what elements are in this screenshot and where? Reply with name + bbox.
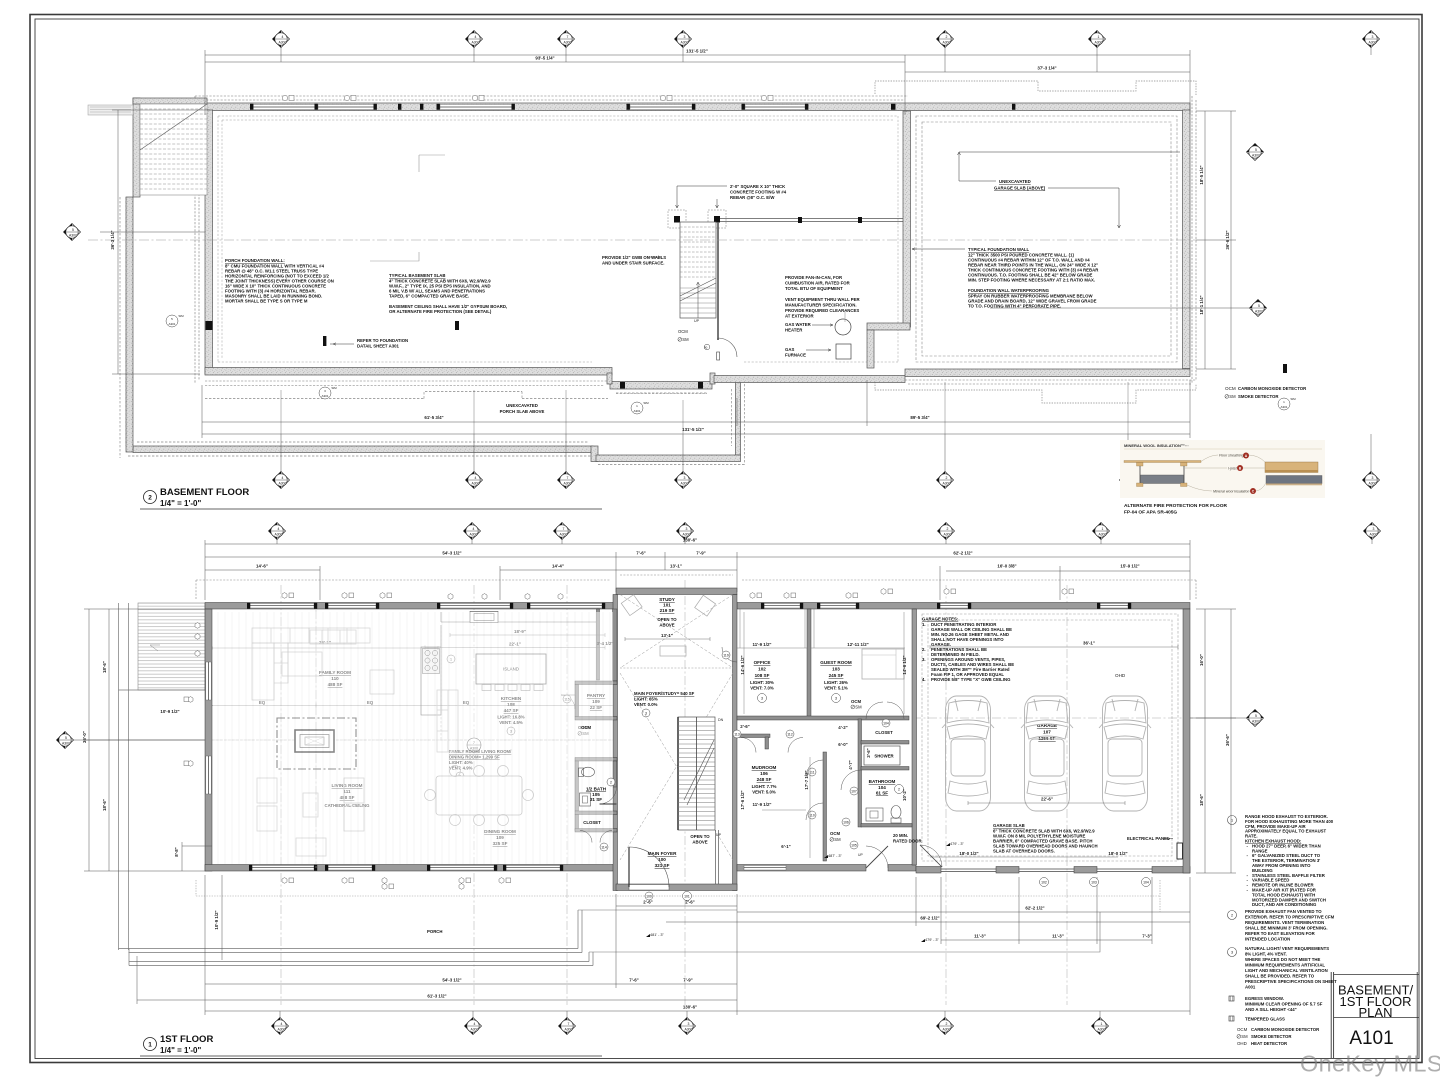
svg-text:5: 5 [72,228,74,232]
svg-text:GARAGE SLAB: GARAGE SLAB [993,823,1025,828]
family room/living room area note [449,749,512,780]
svg-text:UNEXCAVATED: UNEXCAVATED [999,179,1031,184]
svg-text:VENT: 5.1%: VENT: 5.1% [824,686,848,691]
svg-text:8'-8": 8'-8" [174,847,179,856]
svg-text:2'-6": 2'-6" [740,724,749,729]
top wall [205,103,1190,111]
1st floor side diamonds [57,710,1264,749]
svg-text:OCM: OCM [830,831,840,836]
svg-text:20 MIN.: 20 MIN. [893,833,908,838]
svg-text:131'-5 1/2": 131'-5 1/2" [682,427,704,432]
svg-text:A300: A300 [1098,1028,1106,1032]
svg-text:6'-0": 6'-0" [838,742,847,747]
living room furniture [257,670,458,856]
svg-text:A300: A300 [681,482,689,486]
svg-text:1.: 1. [922,622,926,627]
svg-text:22'-6": 22'-6" [1041,797,1053,802]
svg-text:MAIN FOYER: MAIN FOYER [648,851,678,856]
legend symbols [1229,996,1323,1046]
svg-text:I-joist: I-joist [1228,467,1238,471]
slab corner marks [370,155,845,322]
interior wall between house and garage foundation [903,111,911,327]
garage slab dashed inset [922,614,1178,861]
1st floor grid diamonds top [269,523,1381,545]
bottom wall right [714,376,905,383]
svg-text:4'-2": 4'-2" [838,725,847,730]
car 2 [1021,696,1073,811]
svg-text:OPEN TO: OPEN TO [690,834,710,839]
svg-text:PORCH FOUNDATION WALL:: PORCH FOUNDATION WALL: [225,258,285,263]
svg-text:17'-6 1/2": 17'-6 1/2" [740,790,745,809]
svg-text:108 SF: 108 SF [755,673,770,678]
porch foundation top-left: walls [126,98,207,452]
svg-text:18'-5 1/4": 18'-5 1/4" [1199,165,1204,184]
unexcavated garage slab label with arrows [958,152,1181,228]
svg-text:A301: A301 [168,322,175,326]
right wall [1183,609,1190,873]
svg-text:A300: A300 [275,533,283,537]
svg-text:OCM: OCM [1225,386,1236,391]
basement text: typical basement slab [389,273,507,314]
svg-text:A300: A300 [279,482,287,486]
svg-text:3: 3 [761,697,763,701]
svg-text:PRESCRIPTIVE SPECIFICATIONS ON: PRESCRIPTIVE SPECIFICATIONS ON SHEET [1245,979,1337,984]
kitchen dimension lines [425,633,605,650]
svg-text:3.: 3. [922,657,926,662]
pantry walls [575,681,617,685]
svg-text:4'-7": 4'-7" [848,760,853,769]
porch east wall [736,376,741,455]
porch south wall upper [133,446,593,453]
half bath walls [575,758,617,762]
svg-text:BASEMENT FLOOR: BASEMENT FLOOR [160,487,249,498]
foyer side walls [613,595,618,891]
left wall tags [184,623,200,767]
svg-text:LIGHT: 65%: LIGHT: 65% [634,697,658,702]
interior beam double line with columns [620,210,903,389]
dashed area separators [212,625,613,740]
door arc at stair bottom [718,338,737,357]
window tags top [282,589,1074,600]
main stair [678,717,724,884]
basement right dimensions [1196,111,1236,369]
svg-text:16'-0 3/8": 16'-0 3/8" [997,564,1016,569]
svg-text:REFER TO EAST ELEVATION FOR: REFER TO EAST ELEVATION FOR [1245,931,1316,936]
svg-text:36'-0": 36'-0" [82,731,87,743]
hall door arcs on corridor wall [806,760,823,777]
office door arc [722,647,737,662]
svg-text:2.: 2. [922,647,926,652]
car 3 [1099,696,1151,811]
svg-text:TYPICAL BASEMENT SLAB: TYPICAL BASEMENT SLAB [389,273,446,278]
svg-text:A300: A300 [1369,482,1377,486]
svg-text:3: 3 [684,35,686,39]
svg-text:A300: A300 [564,41,572,45]
svg-text:A300: A300 [279,41,287,45]
interior dims [737,609,905,648]
svg-text:2: 2 [610,781,612,785]
svg-text:A300: A300 [685,1028,693,1032]
svg-text:36'-6": 36'-6" [1225,734,1230,746]
svg-text:7'-3": 7'-3" [1142,934,1151,939]
svg-text:DN: DN [718,718,724,722]
svg-text:18'-6": 18'-6" [1199,794,1204,806]
island with stools [476,654,546,691]
svg-text:119: 119 [723,654,729,658]
garage notes [922,617,1014,683]
basement grid diamonds bottom [273,434,1380,489]
svg-text:SM: SM [1241,1034,1248,1039]
kitchen counters [421,612,596,716]
kitchen labels [497,696,524,735]
svg-text:SLAB AT OVERHEAD DOORS.: SLAB AT OVERHEAD DOORS. [993,849,1055,854]
svg-text:54'-3 1/2": 54'-3 1/2" [442,551,461,556]
foyer bottom wall [616,884,737,891]
layered assembly right [1265,462,1322,485]
svg-text:A300: A300 [1095,41,1103,45]
section circle 7/A300 [467,738,481,752]
svg-text:VENT: 7.0%: VENT: 7.0% [750,686,774,691]
svg-text:11'-9 1/2": 11'-9 1/2" [753,642,772,647]
right dims [1196,609,1236,873]
windows in top wall (white gaps with glass line) [247,603,1131,609]
svg-text:CLOSET: CLOSET [583,820,601,825]
svg-text:4: 4 [282,476,284,480]
svg-text:18'-0 1/2": 18'-0 1/2" [959,851,978,856]
svg-text:16'-0": 16'-0" [1199,654,1204,666]
window tags above wall [282,95,773,100]
svg-text:7'-6": 7'-6" [636,551,645,556]
svg-text:FURNACE: FURNACE [785,353,806,358]
svg-text:A300: A300 [564,482,572,486]
gas water heater [785,319,851,335]
office/guest bottom wall [737,716,909,720]
svg-text:5: 5 [65,736,67,740]
svg-text:219 SF: 219 SF [660,608,675,613]
half bath fixtures [579,767,617,806]
svg-text:PLAN: PLAN [1359,1005,1393,1020]
svg-text:OCM: OCM [678,329,688,334]
1st floor grid diamonds bottom [272,1011,1109,1035]
svg-text:7: 7 [567,35,569,39]
svg-text:A300: A300 [943,482,951,486]
unexcavated porch slab above [500,403,545,414]
svg-text:Mineral wool insulation: Mineral wool insulation [1213,490,1249,494]
mudroom labels [752,765,777,795]
svg-text:OR ALTERNATE FIRE PROTECTION (: OR ALTERNATE FIRE PROTECTION (SEE DETAIL… [389,309,492,314]
footing dashed offsets around basement [195,96,1196,394]
svg-text:A300: A300 [1252,720,1260,724]
svg-text:BATHROOM: BATHROOM [869,779,896,784]
svg-text:SM: SM [855,705,862,710]
foyer labels [634,691,695,717]
svg-text:A300: A300 [1252,154,1260,158]
svg-text:TAPED, 6" COMPACTED GRAVE BASE: TAPED, 6" COMPACTED GRAVE BASE. [389,294,469,299]
study chairs [621,595,715,656]
svg-text:FP-04 OF APA SR-405G: FP-04 OF APA SR-405G [1124,510,1177,516]
right wall [1183,110,1191,369]
svg-text:1/2 BATH: 1/2 BATH [586,787,607,792]
svg-text:7'-9": 7'-9" [683,978,692,983]
family room labels [319,670,370,808]
svg-text:11'-3": 11'-3" [1052,934,1064,939]
svg-text:CONCRETE FOOTING W #4: CONCRETE FOOTING W #4 [730,190,787,195]
closet under bath double doors [580,831,612,843]
svg-text:A300: A300 [943,1028,951,1032]
basement top wall windows and jambs [250,95,1015,109]
left wall [205,110,213,374]
svg-text:ABOVE: ABOVE [692,840,707,845]
svg-text:LIGHT: 7.7%: LIGHT: 7.7% [752,784,777,789]
svg-text:OneKey MLS: OneKey MLS [1300,1051,1440,1077]
svg-text:7'-6": 7'-6" [629,978,638,983]
svg-text:111: 111 [809,771,814,775]
stepped porch-door wall [610,382,712,390]
car 1 [942,696,994,811]
basement dimension lines top [205,50,1190,115]
svg-text:103: 103 [1091,881,1097,885]
svg-text:PROVIDE EXHAUST FAN VENTED TO: PROVIDE EXHAUST FAN VENTED TO [1245,909,1322,914]
svg-text:1ST FLOOR: 1ST FLOOR [160,1034,213,1045]
svg-text:A001: A001 [1245,985,1256,990]
svg-text:3: 3 [835,697,837,701]
svg-text:FOUNDATION WALL WATERPROOFING: FOUNDATION WALL WATERPROOFING [968,288,1050,293]
svg-text:14'-6 1/2": 14'-6 1/2" [902,655,907,674]
basement grid diamonds top [273,31,1380,73]
svg-text:3: 3 [686,527,688,531]
garage centerline dash-dot [912,717,1196,719]
svg-text:NATURAL LIGHT/ VENT REQUIREMEN: NATURAL LIGHT/ VENT REQUIREMENTS [1245,946,1329,951]
centerlines dash-dot [88,239,1196,241]
svg-text:62'-2 1/2": 62'-2 1/2" [1025,906,1044,911]
interior footing dashed offsets [218,116,898,362]
svg-text:RATED DOOR: RATED DOOR [893,839,922,844]
svg-text:18'-6": 18'-6" [102,661,107,673]
svg-text:SIM: SIM [331,386,337,390]
svg-text:REFER TO FOUNDATION: REFER TO FOUNDATION [357,338,408,343]
top wall right [737,603,1190,610]
svg-text:REBAR @8" O.C. E/W: REBAR @8" O.C. E/W [730,195,775,200]
svg-text:SHALL BE MINIMUM 3' FROM OPEN: SHALL BE MINIMUM 3' FROM OPENING. [1245,926,1328,931]
svg-text:UP: UP [858,853,863,857]
svg-text:2'-0" SQUARE X 10" THICK: 2'-0" SQUARE X 10" THICK [730,184,786,189]
svg-text:62'-2 1/2": 62'-2 1/2" [953,551,972,556]
guest bed [862,649,904,679]
svg-text:131'-5 1/2": 131'-5 1/2" [686,49,708,54]
range burners [423,649,440,674]
svg-text:OCM: OCM [581,725,591,730]
svg-text:5: 5 [1255,148,1257,152]
svg-text:REQUIREMENTS. VENT TERMINATION: REQUIREMENTS. VENT TERMINATION [1245,920,1324,925]
left wall [205,609,212,871]
svg-text:A300: A300 [1369,41,1377,45]
basement text: porch foundation wall note [225,258,334,304]
svg-text:OCM: OCM [851,699,861,704]
svg-text:321 SF: 321 SF [655,863,670,868]
porch footprint dashed outline bottom-left [120,197,745,465]
svg-text:2'-6": 2'-6" [643,900,652,905]
svg-text:SHOWER: SHOWER [874,754,894,759]
concrete footing note (stairs) [676,184,787,208]
svg-text:103: 103 [832,667,840,672]
svg-text:LIGHT: 30%: LIGHT: 30% [750,680,774,685]
svg-text:106: 106 [760,771,768,776]
refer to foundation note [323,336,408,349]
svg-text:SMOKE DETECTOR: SMOKE DETECTOR [1238,394,1279,399]
provide gwb note [602,255,666,266]
svg-text:1: 1 [1231,819,1233,823]
family room furniture: sectional [252,628,370,700]
svg-text:AT EXTERIOR: AT EXTERIOR [785,314,814,319]
OCM SM symbols near stair [678,329,710,350]
svg-text:A300: A300 [560,533,568,537]
svg-text:A300: A300 [1370,533,1378,537]
svg-text:113: 113 [734,733,740,737]
svg-text:130'-6": 130'-6" [683,1005,697,1010]
section cut circles [166,315,1290,414]
svg-text:SM: SM [834,837,841,842]
svg-text:INTENDED LOCATION: INTENDED LOCATION [1245,937,1290,942]
svg-text:2: 2 [946,476,948,480]
svg-text:A300: A300 [565,1028,573,1032]
elevation flags [646,842,965,937]
svg-text:ALTERNATE FIRE PROTECTION FOR: ALTERNATE FIRE PROTECTION FOR FLOOR [1124,503,1227,509]
svg-text:OHD: OHD [1237,1041,1247,1046]
svg-text:4: 4 [475,476,477,480]
svg-text:4: 4 [282,35,284,39]
grid dash-dot verticals [281,580,1067,1005]
svg-text:102: 102 [1041,881,1047,885]
basement title [140,487,602,509]
svg-text:2: 2 [148,495,152,502]
svg-text:479' - 3": 479' - 3" [950,842,965,846]
svg-text:UNEXCAVATED: UNEXCAVATED [506,403,538,408]
svg-text:7'-9": 7'-9" [696,551,705,556]
svg-text:1: 1 [1098,35,1100,39]
svg-text:CUMBUSTION AIR, RATED FOR: CUMBUSTION AIR, RATED FOR [785,281,851,286]
svg-text:107: 107 [1043,730,1051,735]
svg-text:GARAGE NOTES:: GARAGE NOTES: [922,617,959,622]
svg-text:MINIMUM REQUIREMENTS ARTIFICIA: MINIMUM REQUIREMENTS ARTIFICIAL [1245,963,1325,968]
svg-text:479' - 3": 479' - 3" [925,938,940,942]
svg-text:SIM: SIM [643,401,649,405]
svg-text:A300: A300 [683,533,691,537]
svg-text:102: 102 [758,667,766,672]
svg-text:4: 4 [281,1022,283,1026]
svg-text:101: 101 [663,603,671,608]
svg-text:2: 2 [946,35,948,39]
svg-text:14'-6": 14'-6" [256,564,268,569]
garage foundation slab dashed inset [916,116,1177,362]
kitchen/foyer wall [613,609,618,681]
windows in bottom wall [208,662,786,871]
svg-text:MUDROOM: MUDROOM [752,765,777,770]
svg-text:WHERE SPACES DO NOT MEET THE: WHERE SPACES DO NOT MEET THE [1245,957,1320,962]
svg-text:3: 3 [1231,951,1233,955]
svg-text:18'-0 1/2": 18'-0 1/2" [1108,851,1127,856]
svg-text:104: 104 [1143,881,1149,885]
svg-text:CARBON MONOXIDE DETECTOR: CARBON MONOXIDE DETECTOR [1251,1027,1320,1032]
svg-text:OFFICE: OFFICE [754,660,771,665]
locker door arcs [741,738,756,753]
svg-text:36'-1": 36'-1" [1083,641,1095,646]
svg-text:36'-3 1/4": 36'-3 1/4" [110,230,115,249]
svg-text:ABOVE: ABOVE [659,623,674,628]
basement exterior walls (concrete) [133,103,1190,462]
svg-text:MANUFACTURER SPECIFICATION.: MANUFACTURER SPECIFICATION. [785,303,857,308]
svg-text:A300: A300 [278,1028,286,1032]
top rows [205,540,1190,600]
svg-text:2: 2 [946,1022,948,1026]
svg-text:61 SF: 61 SF [876,791,888,796]
porch slab edges bottom [119,910,1101,966]
svg-text:A301: A301 [1280,405,1287,409]
svg-text:PORCH SLAB ABOVE: PORCH SLAB ABOVE [500,409,545,414]
svg-text:15'-9 1/2": 15'-9 1/2" [1120,564,1139,569]
svg-text:37'-3 1/4": 37'-3 1/4" [1037,66,1056,71]
window tags bottom [282,878,511,890]
svg-text:A300: A300 [62,742,70,746]
svg-text:31 SF: 31 SF [590,797,602,802]
gas furnace [785,344,851,359]
svg-text:GAS WATER: GAS WATER [785,322,812,327]
svg-text:MAIN FOYER/STUDY= 540 SF: MAIN FOYER/STUDY= 540 SF [634,691,695,696]
svg-text:481' - 3": 481' - 3" [650,933,665,937]
garage door panels in gaps [941,869,1152,872]
svg-text:A300: A300 [943,41,951,45]
bottom wall left [205,368,612,376]
svg-text:OCM: OCM [1237,1027,1248,1032]
svg-text:SM: SM [1229,394,1236,399]
bathroom [869,779,896,796]
bottom wall main [205,865,616,872]
svg-text:3: 3 [688,1022,690,1026]
svg-text:6'-1": 6'-1" [781,844,790,849]
svg-text:VENT EQUIPMENT THRU WALL PER: VENT EQUIPMENT THRU WALL PER [785,297,861,302]
svg-text:100: 100 [646,895,652,899]
garage-slab-above dotted outline (top, stepped) [875,81,1196,403]
floor boards hint [213,612,613,864]
svg-text:CLOSET: CLOSET [875,730,893,735]
mudroom lockers wall [737,734,770,738]
svg-text:TOTAL BTU OF EQUIPMENT: TOTAL BTU OF EQUIPMENT [785,286,843,291]
study X dashed [620,595,733,861]
I-joist section left [1124,461,1201,487]
left deck stairs [119,603,206,950]
shower [864,746,900,765]
svg-text:LIGHT AND MECHANICAL VENTILATI: LIGHT AND MECHANICAL VENTILATION [1245,968,1328,973]
svg-text:DATAIL SHEET A301: DATAIL SHEET A301 [357,344,399,349]
top wall left [205,603,616,610]
svg-text:5: 5 [1258,304,1260,308]
front door [629,847,669,900]
svg-text:Floor sheathing: Floor sheathing [1219,454,1244,458]
svg-text:112: 112 [787,733,793,737]
garage bottom wall with door gaps [916,867,941,874]
svg-text:10'-9 1/2": 10'-9 1/2" [214,910,219,929]
svg-text:106: 106 [843,821,849,825]
svg-text:1: 1 [1101,1022,1103,1026]
svg-text:SIM: SIM [178,314,184,318]
svg-text:3: 3 [645,712,647,716]
svg-text:CARBON MONOXIDE DETECTOR: CARBON MONOXIDE DETECTOR [1238,386,1307,391]
svg-text:PROVIDE 5/8" TYPE "X" GWB CEI: PROVIDE 5/8" TYPE "X" GWB CEILING [931,677,1011,682]
svg-text:7: 7 [567,476,569,480]
existing walk strip left of porch [88,105,133,115]
svg-text:SIM: SIM [1290,397,1296,401]
closet walls [575,811,617,815]
fireplace centerlines [214,610,612,868]
